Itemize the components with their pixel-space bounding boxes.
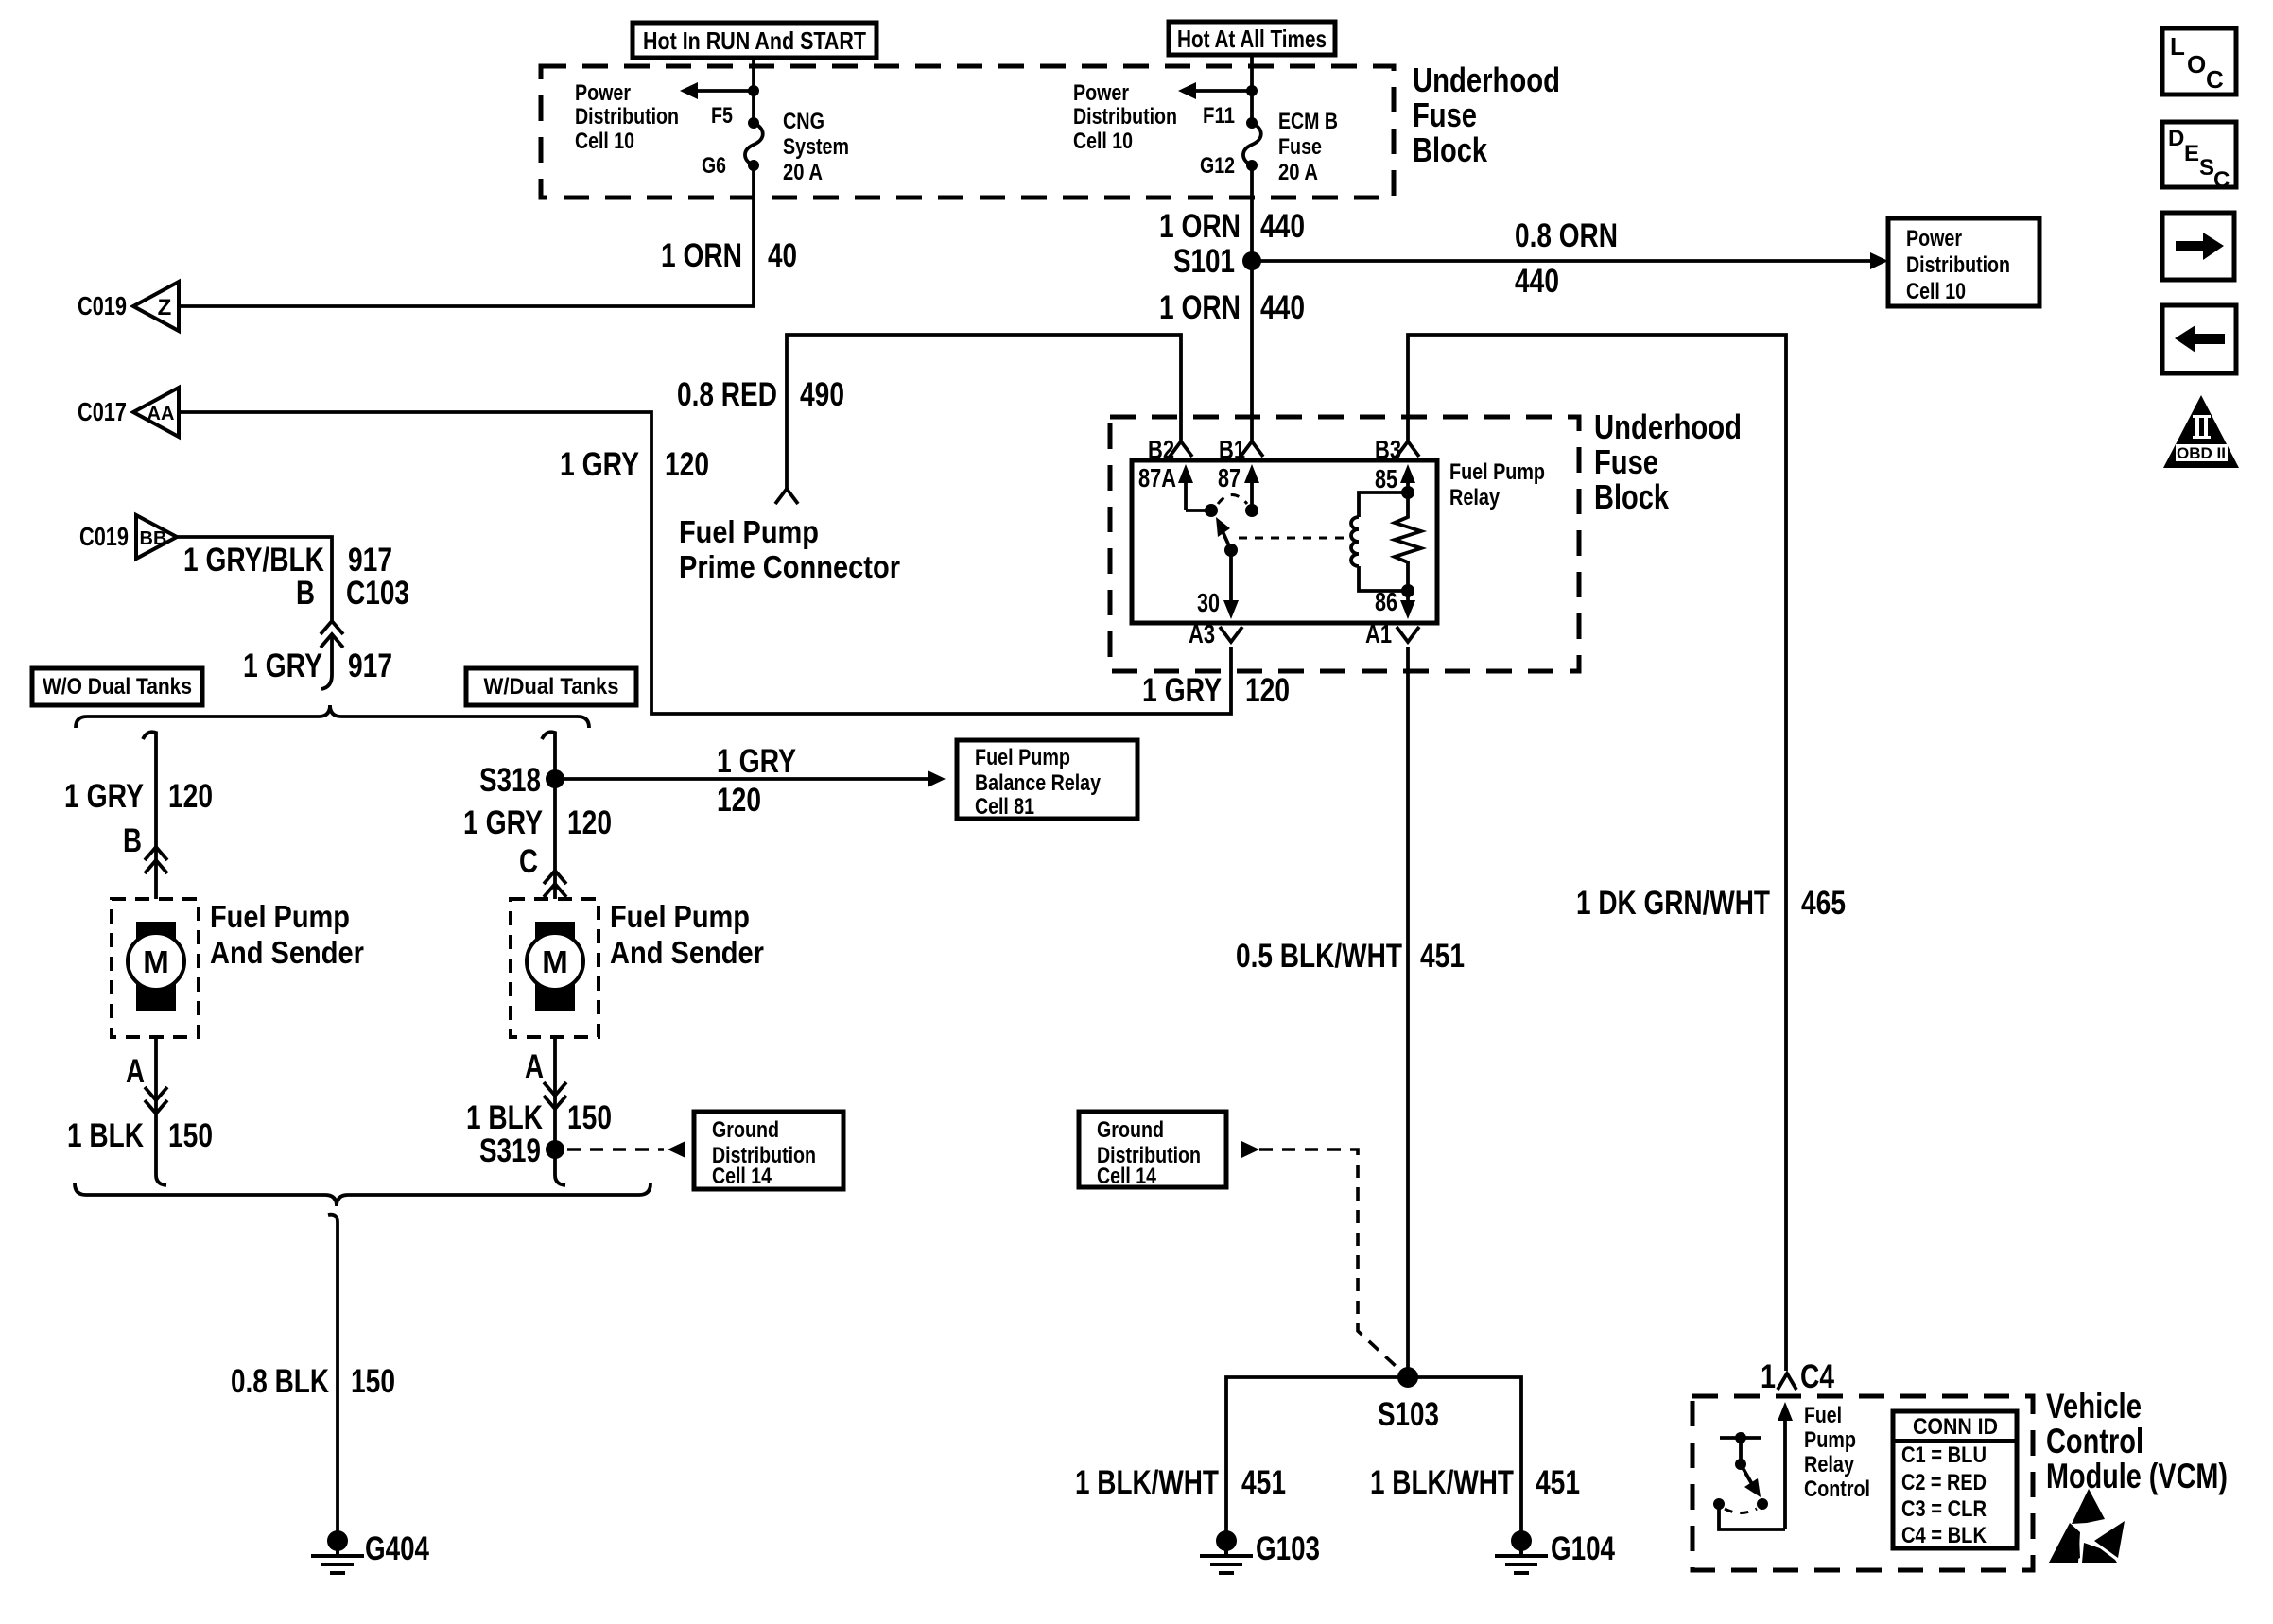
svg-text:CNG: CNG bbox=[783, 109, 824, 134]
svg-text:Fuel Pump: Fuel Pump bbox=[975, 745, 1070, 770]
svg-text:S319: S319 bbox=[479, 1132, 541, 1169]
svg-text:120: 120 bbox=[567, 804, 612, 841]
svg-text:C: C bbox=[519, 843, 538, 880]
svg-text:F11: F11 bbox=[1203, 103, 1235, 129]
svg-text:1 GRY: 1 GRY bbox=[64, 778, 144, 815]
svg-text:40: 40 bbox=[768, 237, 797, 274]
svg-text:Underhood: Underhood bbox=[1413, 60, 1560, 99]
svg-text:120: 120 bbox=[168, 778, 213, 815]
wire from S103 to grounds G103 and G104 bbox=[1226, 1377, 1521, 1532]
svg-text:150: 150 bbox=[567, 1099, 612, 1136]
wire label 1 DK GRN/WHT 465 bbox=[1576, 885, 1846, 922]
svg-text:1 GRY: 1 GRY bbox=[1142, 672, 1222, 709]
wire 0.8 RED 490 prime connector feed bbox=[787, 335, 1181, 489]
svg-text:Ground: Ground bbox=[712, 1117, 779, 1143]
svg-text:0.8 RED: 0.8 RED bbox=[677, 376, 777, 413]
svg-text:Fuse: Fuse bbox=[1278, 134, 1322, 160]
svg-text:Relay: Relay bbox=[1449, 485, 1501, 510]
svg-text:B2: B2 bbox=[1148, 435, 1174, 464]
svg-text:20 A: 20 A bbox=[1278, 160, 1318, 185]
wire label 1 BLK/WHT 451 (right) bbox=[1370, 1464, 1580, 1501]
inline chevrons wire A (left) bbox=[145, 1087, 167, 1114]
svg-text:1 BLK/WHT: 1 BLK/WHT bbox=[1075, 1464, 1219, 1501]
CONN ID table bbox=[1893, 1411, 2017, 1548]
svg-text:Cell 14: Cell 14 bbox=[1097, 1164, 1157, 1189]
option box W/Dual Tanks bbox=[466, 668, 636, 705]
junction node above fuse F11 bbox=[1246, 85, 1258, 96]
svg-text:And Sender: And Sender bbox=[610, 935, 764, 970]
wire below left pump bbox=[154, 1037, 158, 1175]
connector C103 pin B labels bbox=[296, 575, 409, 612]
wire 1 GRY 120 from connector AA to relay pin A3 bbox=[179, 412, 1231, 714]
VCM driver switch bbox=[1713, 1432, 1785, 1529]
svg-text:B1: B1 bbox=[1219, 435, 1245, 464]
svg-text:G404: G404 bbox=[365, 1530, 429, 1567]
svg-text:150: 150 bbox=[168, 1117, 213, 1154]
svg-text:A: A bbox=[525, 1048, 544, 1085]
svg-text:1 ORN: 1 ORN bbox=[1159, 208, 1241, 245]
svg-text:C1 = BLU: C1 = BLU bbox=[1901, 1443, 1987, 1468]
svg-text:C3 = CLR: C3 = CLR bbox=[1901, 1496, 1987, 1522]
splice S318 bbox=[479, 762, 564, 799]
option box W/O Dual Tanks bbox=[32, 668, 202, 705]
svg-text:465: 465 bbox=[1801, 885, 1846, 922]
Fuel Pump Relay Control label bbox=[1804, 1403, 1870, 1502]
wire 0.8 ORN 440 arrow to Power Distribution bbox=[1252, 252, 1888, 269]
fuse F5 element bbox=[745, 117, 763, 171]
svg-text:System: System bbox=[783, 134, 849, 160]
svg-text:Fuel: Fuel bbox=[1804, 1403, 1842, 1428]
Underhood Fuse Block (top) dashed outline bbox=[541, 66, 1394, 198]
wire 0.8 BLK 150 to ground G404 bbox=[328, 1215, 338, 1532]
svg-text:C2 = RED: C2 = RED bbox=[1901, 1470, 1987, 1495]
wire 1 ORN 440 from fuse G12 through S101 to relay pin B1 bbox=[1250, 165, 1254, 442]
splice S103 bbox=[1378, 1367, 1439, 1433]
svg-text:Cell 10: Cell 10 bbox=[1906, 279, 1966, 304]
svg-text:1 BLK: 1 BLK bbox=[466, 1099, 543, 1136]
svg-text:OBD II: OBD II bbox=[2177, 444, 2226, 462]
svg-text:Power: Power bbox=[575, 80, 631, 106]
relay pin 85 arrow bbox=[1375, 464, 1415, 493]
dashed reference wire Ground Distribution to splice S103 bbox=[1241, 1141, 1397, 1367]
wire label 1 BLK 150 (right) bbox=[466, 1099, 612, 1136]
Underhood Fuse Block (relay) dashed outline bbox=[1110, 417, 1579, 671]
wire from Hot In RUN box to fuse F5 bbox=[752, 58, 755, 123]
icon DESC bbox=[2162, 122, 2236, 193]
wire 1 GRY/BLK 917 from BB to connector C103 bbox=[177, 537, 332, 621]
relay pin 87 arrow bbox=[1218, 463, 1259, 510]
Fuel Pump Relay label bbox=[1449, 459, 1545, 510]
wire label 1 GRY 120 below relay bbox=[1142, 672, 1290, 709]
svg-text:0.5 BLK/WHT: 0.5 BLK/WHT bbox=[1236, 938, 1402, 975]
svg-text:86: 86 bbox=[1375, 587, 1397, 616]
wire label 0.8 RED 490 bbox=[677, 376, 844, 413]
svg-text:1 GRY: 1 GRY bbox=[560, 446, 639, 483]
dashed reference wire S319 to Ground Distribution bbox=[567, 1141, 685, 1158]
svg-text:120: 120 bbox=[665, 446, 709, 483]
svg-text:Prime Connector: Prime Connector bbox=[679, 549, 900, 584]
connector C019 terminal BB bbox=[79, 515, 177, 559]
svg-text:1 DK GRN/WHT: 1 DK GRN/WHT bbox=[1576, 885, 1770, 922]
fuse F11 element bbox=[1243, 117, 1261, 171]
fuel pump and sender dashed box (left) bbox=[112, 899, 199, 1037]
svg-text:Power: Power bbox=[1906, 226, 1962, 251]
wire left branch (B circuit) bbox=[143, 732, 156, 899]
svg-text:Ground: Ground bbox=[1097, 1117, 1164, 1143]
wire right branch (C circuit) bbox=[542, 732, 555, 899]
svg-text:And Sender: And Sender bbox=[210, 935, 364, 970]
icon forward arrow bbox=[2162, 213, 2234, 280]
svg-text:S318: S318 bbox=[479, 762, 541, 799]
ESD sensitive device symbol bbox=[2049, 1489, 2125, 1563]
relay pin 86 arrow bbox=[1375, 587, 1415, 619]
svg-text:451: 451 bbox=[1420, 938, 1465, 975]
svg-text:440: 440 bbox=[1260, 208, 1305, 245]
junction node above fuse F5 bbox=[748, 85, 759, 96]
svg-text:30: 30 bbox=[1197, 588, 1220, 617]
wire 1 DK GRN/WHT 465 from relay pin B3 to VCM bbox=[1408, 335, 1786, 1371]
svg-text:Pump: Pump bbox=[1804, 1427, 1856, 1453]
wire label 1 BLK 150 (left) bbox=[67, 1117, 213, 1154]
harness brace bottom bbox=[75, 1183, 651, 1206]
label box Hot In RUN And START bbox=[633, 23, 876, 58]
svg-text:G104: G104 bbox=[1551, 1530, 1615, 1567]
label box Hot At All Times bbox=[1169, 22, 1335, 55]
svg-text:C4: C4 bbox=[1800, 1358, 1834, 1395]
relay coil control dashed link bbox=[1239, 537, 1352, 540]
svg-text:AA: AA bbox=[147, 404, 175, 424]
svg-text:Z: Z bbox=[158, 295, 172, 320]
relay coil resistor bbox=[1395, 492, 1421, 591]
svg-text:1: 1 bbox=[1761, 1358, 1776, 1395]
svg-text:1 ORN: 1 ORN bbox=[1159, 289, 1241, 326]
relay pin A3 terminal bbox=[1189, 619, 1242, 648]
ground G404 bbox=[311, 1530, 429, 1573]
fuel pump and sender dashed box (right) bbox=[511, 899, 599, 1037]
connector C017 terminal AA bbox=[78, 388, 179, 437]
VCM driver output arrow bbox=[1778, 1402, 1793, 1529]
wire 1 ORN 40 from fuse G6 to connector Z bbox=[179, 165, 754, 306]
svg-text:440: 440 bbox=[1515, 263, 1559, 300]
wire label 1 GRY/BLK 917 bbox=[183, 542, 392, 579]
svg-text:W/Dual Tanks: W/Dual Tanks bbox=[484, 674, 619, 700]
svg-text:Fuse: Fuse bbox=[1413, 95, 1477, 134]
Underhood Fuse Block (relay) label bbox=[1594, 407, 1742, 516]
svg-text:M: M bbox=[143, 944, 169, 979]
icon back arrow bbox=[2162, 305, 2236, 373]
svg-text:A1: A1 bbox=[1365, 619, 1392, 648]
reference box Power Distribution Cell 10 bbox=[1888, 218, 2039, 306]
svg-text:A3: A3 bbox=[1189, 619, 1215, 648]
svg-text:A: A bbox=[126, 1053, 145, 1090]
svg-text:Block: Block bbox=[1594, 477, 1670, 516]
svg-text:917: 917 bbox=[348, 542, 392, 579]
svg-text:W/O Dual Tanks: W/O Dual Tanks bbox=[43, 674, 192, 700]
svg-text:Control: Control bbox=[1804, 1477, 1870, 1502]
inline chevrons wire A (right) bbox=[544, 1082, 566, 1109]
relay pin B3 terminal bbox=[1375, 435, 1419, 464]
svg-text:C017: C017 bbox=[78, 397, 127, 426]
svg-text:G12: G12 bbox=[1200, 153, 1235, 179]
wire label 1 GRY 120 right branch bbox=[463, 804, 612, 841]
svg-text:O: O bbox=[2187, 50, 2206, 78]
relay pin 87A arrow bbox=[1138, 463, 1193, 510]
Vehicle Control Module dashed outline bbox=[1692, 1396, 2033, 1570]
relay switch fixed contacts bbox=[1186, 504, 1258, 517]
wire from Hot At All Times box to fuse F11 bbox=[1250, 55, 1254, 123]
svg-text:Underhood: Underhood bbox=[1594, 407, 1742, 446]
svg-text:S: S bbox=[2199, 155, 2214, 181]
relay pin 30 arrow bbox=[1197, 550, 1239, 619]
svg-text:Module (VCM): Module (VCM) bbox=[2046, 1457, 2228, 1495]
wire hook left branch bottom bbox=[156, 1175, 166, 1185]
svg-text:Cell 14: Cell 14 bbox=[712, 1164, 772, 1189]
svg-text:Fuel Pump: Fuel Pump bbox=[679, 514, 819, 549]
svg-text:Hot In RUN And START: Hot In RUN And START bbox=[643, 26, 866, 55]
svg-text:Block: Block bbox=[1413, 130, 1488, 169]
ground G103 bbox=[1200, 1530, 1320, 1573]
svg-text:20 A: 20 A bbox=[783, 160, 823, 185]
relay pin A1 terminal bbox=[1365, 619, 1419, 648]
wire 0.5 BLK/WHT 451 from relay pin A1 to splice S103 bbox=[1406, 647, 1410, 1368]
Fuel Pump And Sender label (right) bbox=[610, 899, 764, 970]
inline chevrons wire C bbox=[544, 871, 566, 897]
relay coil winding bbox=[1351, 486, 1414, 597]
svg-text:451: 451 bbox=[1241, 1464, 1286, 1501]
svg-text:Fuel Pump: Fuel Pump bbox=[1449, 459, 1545, 485]
splice S101 bbox=[1173, 243, 1261, 280]
svg-text:Vehicle: Vehicle bbox=[2046, 1387, 2142, 1425]
svg-text:Power: Power bbox=[1073, 80, 1129, 106]
svg-text:CONN ID: CONN ID bbox=[1913, 1414, 1998, 1440]
svg-text:Relay: Relay bbox=[1804, 1452, 1855, 1477]
reference box Fuel Pump Balance Relay Cell 81 bbox=[957, 740, 1137, 820]
wire arrow to Power Distribution Cell 10 (left) bbox=[680, 82, 754, 99]
svg-text:1 GRY/BLK: 1 GRY/BLK bbox=[183, 542, 324, 579]
inline chevrons wire B bbox=[145, 847, 167, 873]
Vehicle Control Module (VCM) label bbox=[2046, 1387, 2228, 1495]
Underhood Fuse Block (top) label bbox=[1413, 60, 1560, 169]
icon LOC bbox=[2162, 28, 2236, 95]
svg-text:85: 85 bbox=[1375, 464, 1397, 493]
reference box Ground Distribution Cell 14 (left) bbox=[694, 1112, 843, 1189]
VCM pin 1 C4 terminal bbox=[1761, 1358, 1834, 1395]
svg-text:451: 451 bbox=[1536, 1464, 1580, 1501]
relay pin B1 terminal bbox=[1219, 435, 1263, 464]
svg-text:G103: G103 bbox=[1256, 1530, 1320, 1567]
wire 1 GRY 917 from C103 to harness brace bbox=[321, 634, 332, 689]
connector C019 terminal Z bbox=[78, 282, 179, 331]
svg-text:1 BLK: 1 BLK bbox=[67, 1117, 144, 1154]
svg-text:C: C bbox=[2206, 65, 2224, 94]
fuel pump motor M (right) bbox=[527, 922, 583, 1011]
wire arrow to Power Distribution Cell 10 (right) bbox=[1178, 82, 1252, 99]
Power Distribution Cell 10 reference text (left) bbox=[575, 80, 679, 154]
svg-text:1 ORN: 1 ORN bbox=[661, 237, 742, 274]
wire label 0.5 BLK/WHT 451 bbox=[1236, 938, 1465, 975]
svg-text:C: C bbox=[2213, 167, 2230, 193]
icon OBD II triangle bbox=[2163, 395, 2239, 468]
svg-text:Cell 10: Cell 10 bbox=[1073, 129, 1133, 154]
svg-text:Distribution: Distribution bbox=[1906, 252, 2010, 278]
svg-text:C4 = BLK: C4 = BLK bbox=[1901, 1523, 1987, 1548]
svg-text:Control: Control bbox=[2046, 1422, 2143, 1460]
wire label 0.8 ORN 440 bbox=[1515, 217, 1618, 300]
relay switch dashed arc bbox=[1218, 495, 1247, 505]
relay switch movable arm bbox=[1216, 517, 1238, 557]
svg-text:120: 120 bbox=[717, 782, 761, 819]
relay pin B2 terminal bbox=[1148, 435, 1192, 464]
svg-text:D: D bbox=[2168, 126, 2184, 151]
svg-text:Fuel Pump: Fuel Pump bbox=[210, 899, 350, 934]
Fuel Pump Prime Connector terminal bbox=[775, 489, 798, 504]
svg-text:F5: F5 bbox=[711, 103, 733, 129]
svg-text:0.8 BLK: 0.8 BLK bbox=[231, 1363, 329, 1400]
wire label 1 BLK/WHT 451 (left) bbox=[1075, 1464, 1286, 1501]
svg-text:1 GRY: 1 GRY bbox=[717, 743, 796, 780]
svg-text:Distribution: Distribution bbox=[575, 104, 679, 130]
ground G104 bbox=[1495, 1530, 1615, 1573]
svg-text:1 BLK/WHT: 1 BLK/WHT bbox=[1370, 1464, 1514, 1501]
svg-text:0.8 ORN: 0.8 ORN bbox=[1515, 217, 1618, 254]
Power Distribution Cell 10 reference text (right) bbox=[1073, 80, 1177, 154]
svg-text:Fuel Pump: Fuel Pump bbox=[610, 899, 750, 934]
svg-text:1 GRY: 1 GRY bbox=[243, 648, 322, 684]
svg-text:Cell 10: Cell 10 bbox=[575, 129, 634, 154]
svg-text:ECM B: ECM B bbox=[1278, 109, 1338, 134]
svg-text:C103: C103 bbox=[346, 575, 409, 612]
splice S319 bbox=[479, 1132, 564, 1169]
svg-text:Cell 81: Cell 81 bbox=[975, 794, 1034, 820]
svg-text:Distribution: Distribution bbox=[1073, 104, 1177, 130]
svg-text:120: 120 bbox=[1245, 672, 1290, 709]
wire label 0.8 BLK 150 bbox=[231, 1363, 395, 1400]
svg-text:B: B bbox=[296, 575, 315, 612]
wire hook right branch bottom bbox=[555, 1175, 565, 1185]
wire label 1 GRY 917 bbox=[243, 648, 392, 684]
fuse name ECM B Fuse 20 A bbox=[1278, 109, 1338, 185]
wire label 1 ORN 440 above S101 bbox=[1159, 208, 1305, 245]
svg-text:G6: G6 bbox=[702, 153, 726, 179]
svg-text:Balance Relay: Balance Relay bbox=[975, 770, 1102, 796]
svg-text:M: M bbox=[542, 944, 568, 979]
wire 1 GRY 120 arrow to Fuel Pump Balance Relay bbox=[555, 770, 946, 787]
fuse name CNG System 20 A bbox=[783, 109, 849, 185]
fuel pump motor M (left) bbox=[128, 922, 184, 1011]
wire label 1 GRY 120 to balance relay bbox=[717, 743, 796, 819]
connector C103 inline chevrons bbox=[321, 621, 343, 648]
Fuel Pump Relay box bbox=[1132, 460, 1437, 623]
svg-text:L: L bbox=[2170, 32, 2185, 60]
svg-text:BB: BB bbox=[140, 528, 167, 549]
svg-text:S103: S103 bbox=[1378, 1396, 1439, 1433]
wire label 1 GRY 120 (left) bbox=[560, 446, 709, 483]
wire label 1 ORN 440 below S101 bbox=[1159, 289, 1305, 326]
svg-text:1 GRY: 1 GRY bbox=[463, 804, 543, 841]
Fuel Pump And Sender label (left) bbox=[210, 899, 364, 970]
reference box Ground Distribution Cell 14 (right) bbox=[1079, 1112, 1226, 1189]
harness brace top bbox=[76, 705, 589, 728]
svg-text:150: 150 bbox=[351, 1363, 395, 1400]
wire label 1 ORN 40 bbox=[661, 237, 797, 274]
wire label 1 GRY 120 left branch bbox=[64, 778, 213, 815]
wire below right pump bbox=[553, 1037, 557, 1175]
svg-text:87A: 87A bbox=[1138, 463, 1176, 492]
svg-text:Hot At All Times: Hot At All Times bbox=[1177, 25, 1327, 53]
svg-text:440: 440 bbox=[1260, 289, 1305, 326]
svg-text:S101: S101 bbox=[1173, 243, 1235, 280]
svg-text:E: E bbox=[2184, 141, 2199, 166]
svg-text:B3: B3 bbox=[1375, 435, 1401, 464]
Fuel Pump Prime Connector label bbox=[679, 514, 900, 584]
svg-text:490: 490 bbox=[800, 376, 844, 413]
svg-text:87: 87 bbox=[1218, 463, 1241, 492]
svg-text:917: 917 bbox=[348, 648, 392, 684]
svg-text:C019: C019 bbox=[78, 291, 127, 320]
svg-text:B: B bbox=[123, 822, 142, 859]
svg-text:Fuse: Fuse bbox=[1594, 442, 1658, 481]
svg-text:C019: C019 bbox=[79, 522, 129, 551]
